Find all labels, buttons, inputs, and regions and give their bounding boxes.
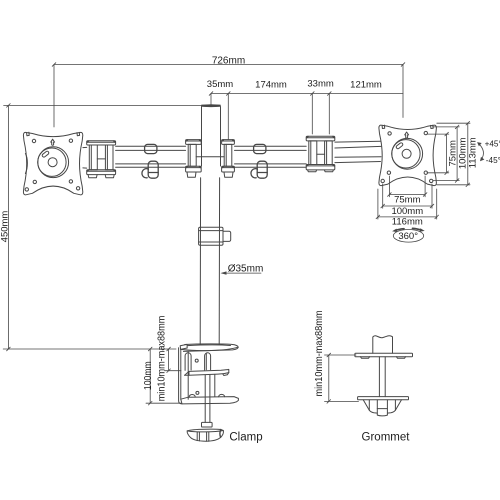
rotation symbol 360 xyxy=(392,228,425,242)
svg-text:174mm: 174mm xyxy=(255,79,287,90)
dimension line 75mm vertical xyxy=(427,132,449,174)
elbow joint at left plate xyxy=(87,141,116,178)
dimension line 100mm horizontal xyxy=(381,184,434,208)
clamp C-bracket wall xyxy=(179,348,189,404)
clamp post right xyxy=(205,353,211,370)
svg-text:116mm: 116mm xyxy=(392,217,423,228)
svg-text:35mm: 35mm xyxy=(207,79,233,90)
right VESA plate hole 2 xyxy=(424,131,427,134)
left VESA plate side flange xyxy=(25,154,27,174)
left VESA plate slot xyxy=(42,151,50,158)
svg-text:+45°: +45° xyxy=(485,139,500,148)
left VESA plate outer hole bottom-left xyxy=(25,188,28,191)
svg-text:360°: 360° xyxy=(398,231,418,242)
svg-text:Clamp: Clamp xyxy=(229,431,262,443)
dimension line min10mm-max88mm clamp xyxy=(165,347,182,372)
svg-text:min10mm-max88mm: min10mm-max88mm xyxy=(313,310,325,396)
right VESA plate top anchor screw xyxy=(405,132,409,138)
right VESA plate outline xyxy=(379,125,437,185)
right VESA plate outer hole bottom-left xyxy=(381,179,384,182)
svg-text:726mm: 726mm xyxy=(212,55,245,66)
right VESA plate centre ring outer xyxy=(392,138,423,169)
left VESA plate top notch right xyxy=(77,132,80,135)
left VESA plate outer hole bottom-right xyxy=(76,187,79,190)
left VESA plate centre bolt xyxy=(48,158,57,167)
right VESA plate hole 1 xyxy=(388,132,391,135)
grommet wing nut xyxy=(363,400,401,416)
dimension line 100mm clamp xyxy=(146,347,181,405)
svg-text:min10mm-max88mm: min10mm-max88mm xyxy=(155,315,167,401)
right VESA plate hole 4 xyxy=(424,171,427,174)
right VESA plate centre ring inner xyxy=(392,140,420,168)
leader line Ø35mm xyxy=(221,271,262,274)
arm tube right section xyxy=(235,141,382,167)
cable clip left xyxy=(142,144,158,178)
svg-text:100mm: 100mm xyxy=(142,361,154,390)
svg-text:Grommet: Grommet xyxy=(362,431,411,443)
pole lower section xyxy=(200,178,219,345)
svg-text:33mm: 33mm xyxy=(307,79,333,90)
dimension line 726mm xyxy=(52,63,405,127)
grommet pole stub xyxy=(373,336,393,353)
arm tube left section xyxy=(83,146,186,168)
left VESA plate top notch left xyxy=(27,132,30,135)
right VESA plate top notch left xyxy=(382,125,385,128)
cable clip right xyxy=(251,144,267,178)
pole upper section xyxy=(202,107,221,166)
right VESA plate centre bolt xyxy=(402,149,411,158)
svg-text:121mm: 121mm xyxy=(350,80,382,91)
clamp post left xyxy=(185,353,191,371)
left VESA plate hole 3 xyxy=(33,180,36,183)
right VESA plate slot xyxy=(396,142,404,149)
left VESA plate centre ring outer xyxy=(38,147,69,178)
clamp handle xyxy=(187,429,223,441)
left VESA plate hole 2 xyxy=(69,139,72,142)
svg-text:100mm: 100mm xyxy=(391,206,423,217)
pole top cap xyxy=(202,104,221,107)
arm joint 33mm xyxy=(306,136,335,171)
svg-text:450mm: 450mm xyxy=(0,211,10,243)
dimension line 75mm horizontal xyxy=(388,176,427,197)
dimension line 100mm vertical xyxy=(433,125,460,182)
dimension line 450mm xyxy=(3,104,201,351)
svg-text:75mm: 75mm xyxy=(394,194,420,205)
clamp face screw lower xyxy=(196,391,199,394)
left VESA plate hole 4 xyxy=(69,180,72,183)
clamp middle pad xyxy=(185,369,229,375)
clamp bottom jaw xyxy=(181,394,239,404)
left VESA plate hole 1 xyxy=(32,139,35,142)
clamp post right inner line xyxy=(205,354,207,370)
right VESA plate hole 3 xyxy=(387,171,390,174)
clamp face screw upper xyxy=(195,359,198,362)
left VESA plate top anchor screw xyxy=(51,139,55,145)
dimension line 113mm vertical xyxy=(437,121,470,186)
pole adjustment collar xyxy=(199,227,231,245)
dimension line 35mm-174mm-33mm-121mm xyxy=(209,92,403,140)
clamp desk pad xyxy=(180,344,238,351)
svg-text:-45°: -45° xyxy=(486,156,500,165)
grommet top plate xyxy=(355,353,413,358)
right VESA plate outer hole bottom-right xyxy=(430,179,433,182)
grommet bottom plate xyxy=(358,397,409,400)
svg-text:Ø35mm: Ø35mm xyxy=(228,264,264,275)
svg-text:113mm: 113mm xyxy=(468,137,479,168)
left VESA plate outline xyxy=(23,132,82,194)
dimension line 116mm horizontal xyxy=(376,189,438,219)
grommet threaded rod xyxy=(379,357,385,397)
dimension line min10mm-max88mm grommet xyxy=(325,353,359,403)
clamp screw collar xyxy=(202,422,213,427)
clamp screw rod xyxy=(205,374,215,422)
pole clamp joint centre xyxy=(186,140,235,178)
right VESA plate top notch right xyxy=(431,125,434,128)
tilt arc +45/-45 xyxy=(477,142,484,161)
left VESA plate centre ring inner xyxy=(38,148,66,176)
